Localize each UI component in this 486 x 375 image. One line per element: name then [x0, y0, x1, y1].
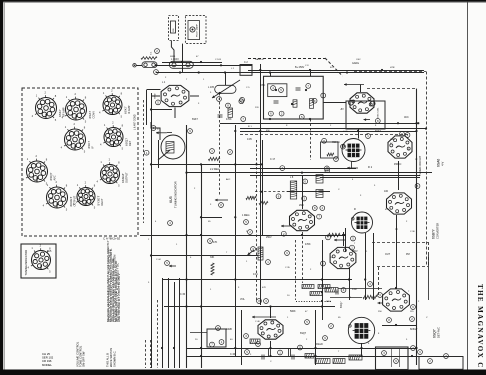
wire vertical x143 dashed: [143, 100, 145, 223]
svg-text:MODEL: MODEL: [42, 363, 52, 367]
bottom code vertical text block A: [76, 341, 86, 367]
wire T1 down steps: [151, 122, 160, 140]
svg-text:6SQ7: 6SQ7: [300, 332, 307, 335]
vertical label 6SB7Y converter mid: [432, 223, 440, 239]
resistor R near y157: [208, 157, 220, 160]
antenna resistor zigzag above coil: [141, 57, 157, 60]
svg-text:AVC: AVC: [404, 116, 409, 119]
tube socket V3 6SK7 IF socket: [99, 88, 131, 118]
svg-text:250V: 250V: [352, 250, 358, 253]
svg-text:PM: PM: [406, 253, 410, 256]
svg-text:AVC: AVC: [250, 196, 255, 199]
tube T10 output coupling: [330, 247, 356, 268]
bottom left part-number text block: [42, 352, 54, 367]
circled ref right of chart: [144, 150, 149, 155]
pilot lamp dashed box: [185, 16, 206, 44]
wire bus y164.4: [151, 164, 262, 166]
svg-text:OSC: OSC: [260, 84, 265, 87]
wire vertical x358 T2-T4: [358, 129, 360, 139]
cluster C3 resistor: [258, 247, 263, 260]
svg-text:456 KC: 456 KC: [332, 141, 340, 144]
small parts mid left: [208, 239, 218, 244]
wire y288 into T11: [338, 288, 382, 290]
bottom resistor bank C: [349, 355, 362, 360]
arrow right mid: [248, 250, 255, 255]
circled ref 2 top: [155, 49, 160, 54]
bottom resistor bank B: [333, 359, 345, 364]
svg-text:C 40: C 40: [255, 321, 260, 323]
svg-text:1 MEG: 1 MEG: [242, 214, 250, 217]
antenna coil L101 oval: [142, 62, 157, 68]
svg-text:6K6GT: 6K6GT: [410, 328, 418, 331]
circled refs left of B1: [240, 97, 246, 121]
svg-text:C 103: C 103: [215, 59, 222, 61]
svg-text:DET-AVC: DET-AVC: [437, 327, 441, 338]
tube T12 shielded output transformer: [348, 317, 374, 343]
svg-text:RF AMP: RF AMP: [62, 107, 66, 117]
wire main bus y70: [248, 70, 424, 72]
svg-text:THE MAGNAVOX C: THE MAGNAVOX C: [476, 284, 484, 369]
wire vertical x235: [235, 125, 237, 357]
ganged tuning diagonal dashed: [325, 58, 343, 76]
svg-text:6K6GT: 6K6GT: [121, 173, 125, 183]
page border top bar: [0, 0, 486, 2]
capacitor at y292: [336, 290, 338, 295]
cluster C2 left of T4 small box: [321, 138, 346, 161]
svg-text:456KC: 456KC: [394, 163, 402, 166]
wire vertical x151: [151, 93, 153, 368]
wire main bus y72.5: [156, 72, 424, 74]
wire vertical x256 dashed: [256, 140, 258, 300]
svg-text:C 30: C 30: [410, 231, 415, 233]
wire y235: [140, 235, 345, 237]
resistor zigzag vertical x212: [211, 263, 214, 275]
pilot lamp assembly: [188, 21, 200, 40]
dashed vertical x378 corner: [378, 267, 380, 295]
svg-text:AVC: AVC: [226, 178, 231, 181]
dashed wire y191: [255, 191, 287, 193]
circled refs near T10: [321, 235, 356, 266]
tube socket V1 6SK7 RF socket: [32, 90, 66, 122]
antenna terminal: [133, 64, 142, 67]
svg-text:TUNED CIRCUIT: TUNED CIRCUIT: [418, 155, 422, 176]
circled ref 2 on bus: [228, 150, 233, 155]
svg-text:I.F.: I.F.: [395, 228, 399, 231]
volume control circled arrow: [165, 261, 176, 268]
resistor group y292 C: [310, 292, 322, 296]
svg-text:470K: 470K: [226, 118, 232, 121]
svg-text:L 104 F: L 104 F: [171, 58, 180, 61]
resistor zigzag y203: [259, 201, 268, 204]
wire vertical x396 T5-T11: [396, 215, 398, 288]
circled refs x246 col: [244, 220, 253, 235]
resistor near T10 cluster low: [325, 288, 338, 293]
tube location chart dashed box: [22, 88, 138, 236]
svg-text:C 35: C 35: [285, 267, 290, 269]
wire vertical x373.6 T6 down: [373, 233, 375, 300]
cluster C3 circled refs: [251, 247, 290, 265]
svg-text:470K: 470K: [305, 243, 311, 246]
wire bus y175.5: [250, 175, 420, 177]
wire vertical x186.5: [186, 125, 188, 368]
tube V1 6SK7 RF amplifier: [161, 85, 189, 106]
arrow into T9 grid: [252, 316, 276, 319]
tube T1 leads: [151, 96, 199, 118]
circled ref left mid: [168, 221, 173, 226]
svg-text:B+ 250V: B+ 250V: [295, 66, 305, 69]
svg-text:6SK7: 6SK7: [375, 130, 382, 133]
svg-text:2.2 MEG: 2.2 MEG: [210, 168, 220, 171]
wire vertical x361 T12 down: [361, 343, 363, 356]
tube V2 6SA7 converter: [350, 93, 374, 113]
circled refs near T11: [378, 293, 416, 323]
svg-text:6U5: 6U5: [47, 250, 52, 253]
tube V10 6U5 tuning indicator circle: [158, 135, 185, 160]
svg-text:C A *8K2+9Z: C A *8K2+9Z: [103, 237, 120, 241]
wire T1 grid left bend: [147, 90, 161, 126]
on-off switch component: [171, 21, 176, 33]
right margin rule: [467, 2, 469, 370]
dotted wire y301: [296, 301, 332, 303]
svg-text:6SQ7: 6SQ7: [49, 172, 53, 180]
svg-text:LINE VOLTAGE 117 V 60 CY B+: LINE VOLTAGE 117 V 60 CY B+ 250 V: [117, 273, 121, 322]
wire bus y172.6: [187, 172, 432, 174]
svg-text:MEG: MEG: [326, 301, 331, 303]
bottom small resistor x250: [250, 339, 260, 344]
wire bus to B1 connector A: [270, 73, 272, 77]
svg-text:THIS ALL B: THIS ALL B: [106, 353, 110, 367]
wire vertical x416.5 main right: [416, 89, 418, 365]
service notes text block: [106, 240, 121, 322]
circled refs above T3: [366, 132, 410, 139]
arrow in osc box: [364, 118, 371, 121]
tube V5 6SQ7 detector: [258, 320, 283, 339]
tuning indicator box: [21, 244, 56, 278]
wire vertical x345: [345, 228, 347, 252]
bottom circled pair: [245, 282, 373, 355]
wire vertical x365 T6 down: [365, 233, 367, 300]
bottom tick caps: [269, 349, 291, 356]
B1 resistor vertical: [293, 100, 297, 107]
zigzag resistor on y235: [327, 233, 340, 237]
circled refs in can box: [216, 326, 224, 345]
wire antenna bus y65: [155, 65, 252, 67]
wire y191.7: [287, 191, 330, 193]
wire bus to L2 coil: [225, 73, 227, 86]
tube V11 6K6 output: [383, 289, 410, 311]
tube V5 second IF: [387, 193, 412, 214]
svg-text:L 6 ANT COND: L 6 ANT COND: [134, 114, 137, 130]
circled ref AVC: [219, 203, 224, 208]
electrolytic can box: [207, 329, 226, 347]
wire can box left: [190, 332, 207, 334]
svg-text:TUNING INDICATOR: TUNING INDICATOR: [173, 181, 177, 208]
svg-text:WAVE SW POS: WAVE SW POS: [109, 348, 113, 367]
svg-text:0.05: 0.05: [247, 138, 252, 141]
circled ref cluster low x343: [341, 288, 346, 293]
svg-text:6SK7: 6SK7: [124, 106, 128, 114]
wire bus y177.7: [320, 177, 420, 179]
wire vertical x262: [262, 140, 264, 235]
terminal block on bus x240: [240, 65, 252, 76]
svg-text:6SQ7: 6SQ7: [433, 329, 437, 338]
svg-text:6SK7: 6SK7: [192, 118, 199, 121]
arrow into T8: [281, 225, 292, 228]
bottom resistor bank A: [315, 359, 330, 364]
tube socket V4 6SK7 socket: [61, 122, 95, 154]
svg-text:SHOWN B.C.: SHOWN B.C.: [113, 350, 117, 367]
wire bus y123: [220, 123, 417, 125]
svg-text:GANG B: GANG B: [255, 58, 264, 61]
wire vertical x162 bottom: [162, 278, 164, 368]
wire bus y128.5: [240, 128, 426, 130]
svg-text:AVC: AVC: [53, 175, 57, 180]
wire bus y348: [186, 348, 417, 350]
wire y255.5: [151, 255, 258, 257]
IF transformer winding bottom right: [316, 190, 323, 198]
wire vertical x201: [201, 164, 203, 368]
svg-text:FIELD: FIELD: [316, 343, 323, 346]
dashed wire y266.5 right: [377, 266, 428, 268]
arrow below T4: [347, 167, 358, 170]
capacitor arrows in RF box: [156, 131, 172, 134]
circled ref 8 below antenna: [154, 70, 159, 75]
tube T4 shielded oscillator transformer: [342, 139, 365, 162]
svg-text:40MF: 40MF: [226, 328, 233, 331]
svg-text:47K: 47K: [213, 241, 218, 244]
6U5 vertical label: [169, 181, 177, 208]
dashed wire y88.6 right: [367, 88, 417, 90]
wire vertical x295 dashed: [295, 240, 297, 300]
oscillator section box: [346, 101, 385, 129]
wire vertical x270 T9 bottom: [270, 341, 272, 348]
wire vertical x302 T8 top: [302, 176, 304, 209]
page border left bar: [0, 0, 3, 375]
dashed box on-off switch: [169, 16, 179, 41]
wire bus y279.5: [162, 279, 352, 281]
wire pilot lamp down right: [182, 44, 184, 73]
svg-text:0.01: 0.01: [253, 273, 258, 276]
junction dots on antenna bus: [155, 64, 262, 73]
svg-text:GANG: GANG: [352, 62, 359, 65]
svg-text:ON-OFF SW: ON-OFF SW: [82, 351, 86, 367]
wire T4 bottom down: [351, 162, 353, 169]
wire y325 right: [382, 325, 417, 327]
svg-text:DET: DET: [128, 140, 132, 146]
svg-text:C 21: C 21: [343, 131, 348, 133]
dashed vertical x426: [426, 72, 428, 267]
svg-text:6SB7Y: 6SB7Y: [432, 228, 436, 239]
circled ref with value x153: [151, 126, 161, 131]
AVC arrow left y200: [215, 199, 228, 202]
svg-text:CONV: CONV: [92, 111, 96, 119]
wire vertical x349: [349, 268, 351, 300]
dashed bus top right y72: [354, 71, 426, 73]
bottom circled refs: [210, 334, 449, 364]
svg-text:C 44: C 44: [156, 259, 161, 261]
bottom code vertical text block B: [106, 348, 117, 367]
resistor group y286-294 B: [318, 285, 330, 289]
tube socket V2 6SA7 CONV socket: [62, 92, 96, 124]
circled refs above T9: [257, 299, 269, 304]
svg-text:IF AMP: IF AMP: [127, 105, 131, 114]
circled refs near RF coil: [217, 97, 244, 108]
svg-text:-8V: -8V: [340, 108, 344, 111]
dashed vertical x302.5 below T8: [302, 232, 304, 283]
tube socket V9 5Y3 RECT socket: [73, 180, 104, 209]
arrow into T10: [334, 239, 345, 242]
T2 side pin circles: [349, 100, 375, 106]
svg-text:PILOT LAMP: PILOT LAMP: [196, 24, 199, 37]
wire vertical x428 lower: [428, 255, 430, 300]
tiny value labels scatter: [148, 56, 428, 363]
tube V4 6SK7 second IF tube: [290, 210, 315, 230]
capacitor C4: [218, 115, 223, 117]
wire vertical x241 bottom: [241, 310, 243, 365]
svg-text:SW 1: SW 1: [170, 56, 176, 58]
svg-text:2ND: 2ND: [299, 204, 304, 207]
circled refs on right vertical: [410, 317, 416, 351]
wire vertical x310 dashed: [310, 119, 312, 160]
svg-text:6SA7: 6SA7: [88, 111, 92, 119]
wire bus y131: [240, 131, 417, 133]
wire bus y306.5: [164, 306, 335, 308]
wire vertical x179.5: [179, 278, 181, 368]
svg-text:C 40: C 40: [230, 353, 236, 356]
svg-text:CONVERTER: CONVERTER: [436, 223, 440, 239]
svg-text:C 2: C 2: [244, 61, 248, 64]
RF section box top edge: [151, 109, 173, 111]
svg-text:OUTPUT: OUTPUT: [125, 172, 129, 183]
power transformer innards: [382, 349, 400, 367]
arrow into T2 grid: [344, 83, 364, 92]
wire top bus y62: [162, 62, 222, 64]
dashed bus y134: [240, 134, 410, 136]
circled ref 2 on y170: [325, 168, 330, 173]
IF transformer winding top right: [316, 175, 323, 184]
wire vertical x220 dashed: [219, 93, 221, 195]
dashed vertical x428: [428, 242, 430, 267]
svg-text:RECT: RECT: [100, 198, 104, 205]
vertical label 6SA6 top right: [437, 159, 445, 167]
tube V10 6U5 socket in indicator box: [28, 243, 53, 273]
wire vertical x322: [322, 240, 324, 320]
wire B1 to T2: [323, 102, 346, 104]
svg-text:6SQ7: 6SQ7: [339, 301, 343, 308]
tube socket V6 6SQ7 AVC socket: [23, 154, 57, 186]
dashed vertical x145.5 bottom: [145, 340, 147, 368]
tube V3 6SK7 IF amplifier: [388, 136, 412, 158]
B1 small caps: [274, 88, 301, 103]
wire vertical x168 bottom: [168, 278, 170, 368]
ganged tuning dashed line y58: [248, 58, 325, 60]
dashed vertical x150.5 bottom: [150, 340, 152, 368]
svg-text:HTR: HTR: [390, 67, 395, 69]
IF transformer winding left: [290, 181, 296, 199]
circled ref R zigzag: [210, 149, 215, 154]
circled ref 3 below T4: [325, 166, 330, 171]
circled ref osc box: [375, 119, 380, 124]
svg-text:5Y3GT: 5Y3GT: [97, 196, 101, 206]
svg-text:33K: 33K: [210, 256, 215, 259]
resistor R3 vertical: [228, 108, 233, 117]
wire bus to B1 connector B: [310, 70, 312, 76]
svg-text:250V: 250V: [266, 236, 272, 239]
wire bus y356: [186, 356, 419, 358]
wire vertical x343 T10 top: [343, 232, 345, 246]
dashed wire y242 right: [372, 242, 428, 244]
wire vertical x174 bottom: [174, 282, 176, 368]
dashed vertical x157.6 bottom: [157, 300, 159, 368]
svg-text:47K: 47K: [262, 287, 266, 289]
resistor zigzag y198: [246, 196, 256, 199]
svg-text:IF 2: IF 2: [368, 166, 373, 169]
inner margin line top: [3, 2, 486, 4]
wire bus y168.5: [250, 168, 356, 170]
B1 inner circled refs: [269, 84, 326, 120]
svg-text:OSC COIL: OSC COIL: [378, 107, 380, 118]
tube socket V5 6SQ7 socket: [100, 120, 132, 150]
inner margin line left: [4, 2, 6, 370]
tube socket V8 6K6 OUT2 socket: [43, 180, 77, 212]
svg-text:TUNING INDICATOR: TUNING INDICATOR: [24, 250, 28, 276]
circled ref 4 on y168 bus: [280, 166, 285, 171]
tube socket V7 6K6 OUT socket: [97, 157, 129, 187]
wire vertical x315.5 bottom: [315, 310, 317, 365]
power transformer box: [376, 347, 409, 370]
resistor group y286-294 A: [302, 285, 314, 289]
coupling unit box B1: [264, 76, 324, 119]
B1 coil vertical: [310, 99, 314, 109]
svg-text:L 105: L 105: [208, 86, 215, 89]
bottom coil hatch y354: [305, 354, 314, 359]
oscillator coil oval L104: [169, 58, 193, 68]
RF coil oval L2 with trimmer arrow: [212, 80, 240, 98]
junction dots main buses: [150, 61, 427, 357]
svg-text:C 17: C 17: [270, 158, 276, 161]
circled ref near 6U5: [188, 129, 193, 134]
svg-text:6SQ7: 6SQ7: [125, 138, 129, 146]
page border bottom bar: [0, 370, 486, 375]
svg-text:1846: 1846: [390, 139, 396, 141]
circled refs right of T9: [305, 320, 334, 341]
svg-text:0.02: 0.02: [352, 288, 357, 291]
svg-text:OUT: OUT: [385, 253, 391, 256]
bottom caps: [262, 355, 294, 360]
svg-text:4 V: 4 V: [441, 162, 445, 166]
circled ref on dashed x418: [415, 184, 420, 189]
tube T6 shielded IF transformer: [352, 212, 373, 233]
svg-text:VOL: VOL: [240, 298, 245, 301]
speaker box bottom right: [419, 357, 463, 370]
wire y297 with resistor: [330, 295, 383, 304]
circled ref left of T1: [156, 100, 161, 105]
wire pilot lamp down left: [171, 41, 174, 63]
svg-text:OSC: OSC: [356, 59, 361, 61]
svg-text:100: 100: [384, 190, 389, 193]
junction dot pilot wire: [181, 61, 183, 63]
wire vertical x260: [260, 64, 262, 305]
svg-text:C 30: C 30: [180, 293, 186, 296]
circled ref below T8: [281, 231, 286, 236]
wire vertical x270 T9 top: [270, 307, 272, 319]
wire y217: [202, 217, 222, 219]
wire vertical x398 T3-T5: [398, 161, 400, 190]
B1 inner box: [268, 84, 287, 97]
svg-text:500K: 500K: [290, 310, 296, 313]
circled refs IF cluster: [276, 179, 325, 219]
vertical label 6SQ7 det: [433, 327, 441, 338]
